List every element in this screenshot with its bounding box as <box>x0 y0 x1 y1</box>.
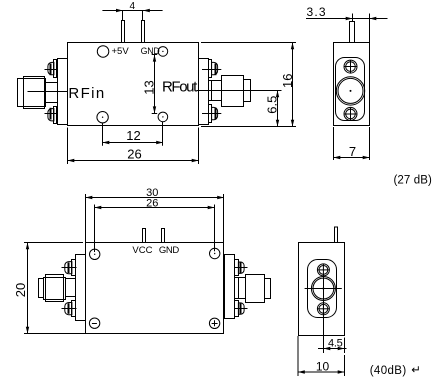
side pin 27dB <box>350 22 355 43</box>
washer line M1 right <box>211 81 213 101</box>
dimension 7 arrow left <box>334 156 341 159</box>
dimension 16: dim line <box>292 43 294 127</box>
left screw top M1: cross <box>45 69 59 71</box>
left SMA connector M1: nut outer <box>24 79 46 107</box>
dimension 6.5 arrow up <box>276 91 279 98</box>
dimension 10 arrow right <box>338 370 345 373</box>
svg-text:4: 4 <box>130 1 136 12</box>
dimension 26 arrow right <box>192 159 199 162</box>
bottom screw 27dB <box>344 107 357 120</box>
left screw top M1: dome <box>48 62 54 74</box>
dimension 26 M2 arrow left <box>95 206 102 209</box>
feedthrough circle (plain) top-left <box>97 46 109 58</box>
dimension 26 M2: dim line <box>95 207 215 209</box>
right screw top M1: base <box>209 60 212 78</box>
dimension 10 arrow left <box>298 370 305 373</box>
dimension 6.5 arrow down <box>276 120 279 127</box>
pin VCC <box>143 229 146 243</box>
pin GND <box>142 21 145 43</box>
dimension 16: extension line bottom <box>201 126 296 128</box>
dimension 30 arrow left <box>86 196 93 199</box>
dimension 6.5: dim line <box>277 91 279 127</box>
right SMA connector M2: flange <box>225 255 235 319</box>
right SMA connector M1: neck <box>209 81 222 101</box>
dimension 4.5: dim line <box>318 348 347 350</box>
dimension 7: dim line <box>334 157 370 159</box>
hole bottom-right M2 (plus) <box>209 318 219 328</box>
dimension 4 (pin spacing): dim line <box>102 10 162 12</box>
inner stadium 40dB <box>308 260 337 318</box>
right screw bottom M1: base <box>209 105 212 123</box>
left SMA connector M2: tip <box>39 279 44 298</box>
svg-text:26: 26 <box>127 147 141 162</box>
svg-text:10: 10 <box>316 360 330 374</box>
svg-text:12: 12 <box>126 128 140 143</box>
bottom screw 40dB <box>317 303 329 315</box>
svg-text:(27 dB): (27 dB) <box>394 174 432 186</box>
svg-text:RFout: RFout <box>162 78 198 95</box>
dimension 6.5: extension line (connector centerline extended) <box>260 90 282 92</box>
left SMA connector M1: centerline <box>28 91 68 93</box>
SMA circle 40dB <box>311 277 335 301</box>
dimension 26 arrow left <box>68 159 75 162</box>
dimension 12: extension lines <box>102 123 104 146</box>
dimension 20 arrow up <box>26 243 29 250</box>
left screw bottom M1: base <box>54 107 57 124</box>
side body 40dB <box>299 243 345 336</box>
dimension 4 extension line right <box>142 11 144 21</box>
svg-text:4.5: 4.5 <box>328 338 343 350</box>
left SMA connector M2: nut inner <box>46 275 64 302</box>
right SMA connector M1: centerline <box>197 90 260 92</box>
hole bottom-left M2 (minus) <box>89 318 99 328</box>
side pin 40dB <box>335 227 338 243</box>
svg-text:+5V: +5V <box>112 46 130 57</box>
dimension 4.5 arrow right <box>338 347 345 350</box>
svg-text:(40dB): (40dB) <box>370 365 407 377</box>
dimension 16 arrow down <box>291 120 294 127</box>
dimension 3.3: extension line at pin <box>352 14 354 22</box>
svg-text:6.5: 6.5 <box>265 96 280 114</box>
dimension 12: dim line <box>103 142 164 144</box>
left screw top M1: base <box>54 60 57 78</box>
dimension 10: extension lines <box>297 336 299 376</box>
left screw bottom M2: base <box>72 301 76 317</box>
left screw bottom M2: cross <box>62 308 77 310</box>
dimension 16: extension line top <box>201 42 296 44</box>
dimension 16 arrow up <box>291 43 294 50</box>
svg-text:16: 16 <box>280 74 295 88</box>
top screw 40dB <box>317 264 329 276</box>
left screw top M2: cross <box>62 267 77 269</box>
svg-text:7: 7 <box>349 144 356 159</box>
top screw 27dB <box>344 60 357 73</box>
dimension 3.3 arrow left <box>346 17 353 20</box>
left screw top M2: base <box>72 260 76 276</box>
right screw bottom M2: dome <box>238 303 244 314</box>
right SMA connector M1: nut <box>222 76 244 107</box>
dimension 20: extension lines <box>24 242 83 244</box>
right screw top M2: base <box>235 260 239 276</box>
svg-text:RFin: RFin <box>68 85 105 102</box>
side body 27dB <box>334 43 370 126</box>
right screw top M2: dome <box>238 262 244 273</box>
hole top-right M2 <box>210 248 220 258</box>
dimension 30: extension lines <box>85 194 87 243</box>
right screw bottom M2: base <box>235 301 239 317</box>
body outline M1 <box>68 43 199 126</box>
left SMA connector M2: flange <box>76 255 86 321</box>
right screw bottom M2: cross <box>234 308 248 310</box>
left screw top M2: dome <box>65 262 72 274</box>
dimension 10: dim line <box>298 371 345 373</box>
right screw top M1: dome <box>212 62 218 74</box>
inner stadium 27dB <box>336 58 365 121</box>
hole bottom-right <box>158 112 168 122</box>
dimension 30 arrow right <box>217 196 224 199</box>
dimension 4 extension line left <box>122 11 124 21</box>
left screw bottom M1: cross <box>45 113 59 115</box>
crosshair horizontal 40dB <box>305 288 342 290</box>
dimension 7 arrow right <box>363 156 370 159</box>
left SMA connector M2: neck <box>66 279 76 297</box>
dimension 13 arrow up <box>153 55 156 62</box>
dimension 12 arrow left <box>103 141 110 144</box>
dimension 20: dim line <box>27 243 29 334</box>
dimension 3.3: extension line right <box>369 14 371 43</box>
right SMA connector M2: neck <box>235 278 246 299</box>
pin GND <box>162 229 165 243</box>
dimension 4.5 arrow left <box>324 347 331 350</box>
dimension 13 (hole spacing vertical): dim line <box>154 55 156 114</box>
dimension 3.3: dim line <box>306 18 388 20</box>
dimension 13 arrow down <box>153 106 156 113</box>
right SMA connector M2: nut <box>246 275 265 303</box>
dimension 12 arrow right <box>156 141 163 144</box>
right screw top M1: cross <box>202 69 221 71</box>
left SMA connector M1: tip <box>18 79 24 107</box>
dimension 26 M2 arrow right <box>208 206 215 209</box>
right screw bottom M1: cross <box>202 113 221 115</box>
dimension 4 arrow left <box>116 9 123 12</box>
dimension 7: extension lines <box>333 127 335 160</box>
svg-text:VCC: VCC <box>132 245 152 256</box>
dimension 3.3 arrow right <box>370 17 377 20</box>
right SMA connector M1: tip <box>244 80 251 102</box>
svg-text:20: 20 <box>13 283 28 297</box>
left SMA connector M1: nut inner profile <box>24 77 45 109</box>
hole top-left M2 <box>90 249 100 259</box>
left screw bottom M2: dome <box>65 303 72 315</box>
pin +5V <box>122 21 125 43</box>
crosshair vertical 40dB (extends down as 4.5 extension) <box>323 274 325 353</box>
dimension 20 arrow down <box>26 327 29 334</box>
left SMA connector M2: nut <box>44 278 66 300</box>
right screw bottom M1: dome <box>212 107 218 119</box>
svg-text:GND: GND <box>159 245 179 256</box>
dimension 4 arrow right <box>143 9 150 12</box>
dimension 26: dim line <box>68 160 199 162</box>
svg-text:13: 13 <box>142 80 157 94</box>
svg-text:↵: ↵ <box>411 365 421 377</box>
SMA circle 27dB <box>336 77 364 105</box>
right screw top M2: cross <box>234 267 248 269</box>
dimension 26 M2: extension lines <box>94 205 96 253</box>
dimension 26: extension lines <box>67 128 69 165</box>
right SMA connector M1: flange <box>199 59 209 125</box>
hole bottom-left <box>97 112 108 123</box>
left screw bottom M1: dome <box>48 109 54 121</box>
right SMA connector M2: tip <box>265 279 271 299</box>
left SMA connector M1: flange <box>58 59 68 125</box>
svg-text:26: 26 <box>146 197 158 209</box>
left SMA connector M1: neck <box>46 83 58 103</box>
hole top-right <box>158 47 168 57</box>
dimension 4.5: extension line right <box>344 338 346 354</box>
dimension 30: dim line <box>86 197 225 199</box>
svg-text:3.3: 3.3 <box>307 5 327 19</box>
body outline M2 <box>86 243 224 334</box>
washer line M2 right <box>238 278 240 299</box>
